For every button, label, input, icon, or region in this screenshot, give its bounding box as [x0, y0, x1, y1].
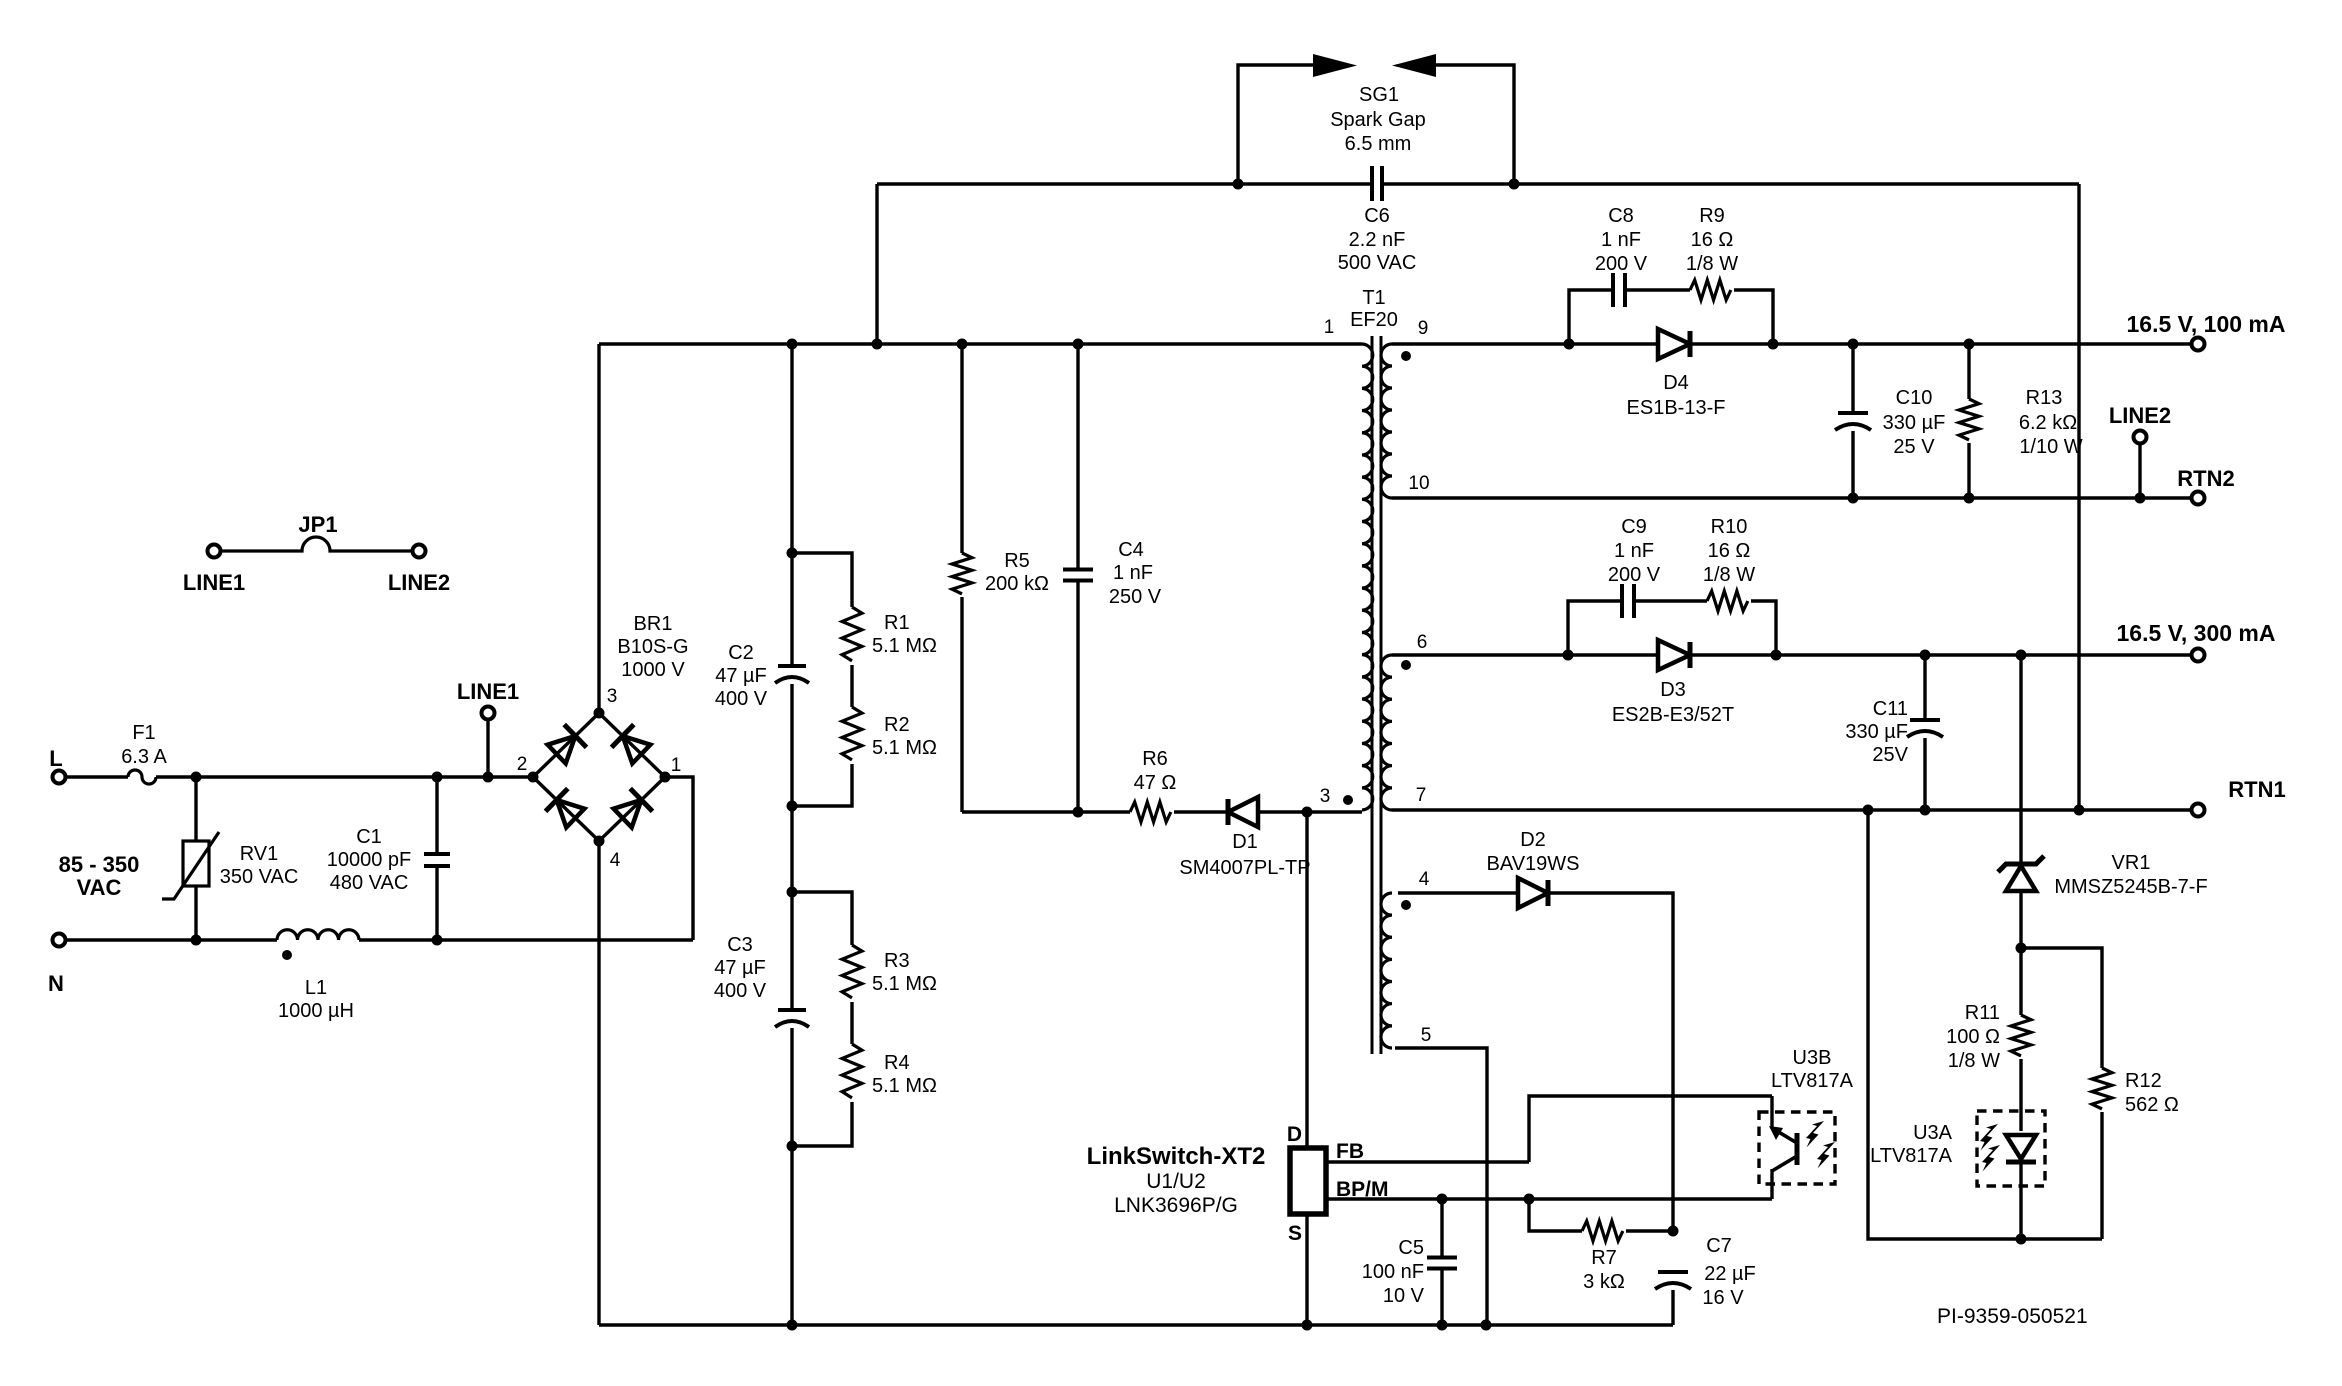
svg-text:BR1: BR1	[634, 613, 673, 635]
svg-text:47 µF: 47 µF	[715, 665, 767, 687]
svg-text:R4: R4	[884, 1052, 910, 1074]
resistor R1	[792, 553, 852, 607]
junction RTN1 return	[1863, 805, 1874, 816]
svg-text:N: N	[48, 971, 64, 996]
svg-text:5.1 MΩ: 5.1 MΩ	[872, 1075, 937, 1097]
junction R13 bottom	[1964, 493, 1975, 504]
junction bridge node 1	[660, 772, 671, 783]
junction R2 branch bottom	[787, 801, 798, 812]
svg-text:350 VAC: 350 VAC	[220, 866, 299, 888]
svg-text:1 nF: 1 nF	[1601, 229, 1641, 251]
svg-text:S: S	[1288, 1222, 1302, 1245]
svg-text:R3: R3	[884, 950, 910, 972]
phase dot pin 9	[1401, 351, 1411, 361]
wire bridge AC right drop	[665, 777, 693, 940]
wire bulk bus upper	[790, 344, 793, 666]
wire R2 bottom	[792, 764, 852, 806]
svg-text:100 nF: 100 nF	[1362, 1261, 1424, 1283]
junction SG1 right	[1509, 179, 1520, 190]
svg-text:3 kΩ: 3 kΩ	[1583, 1271, 1625, 1293]
svg-text:1/10 W: 1/10 W	[2019, 436, 2082, 458]
wire bridge node 4 to return bus	[597, 841, 600, 1325]
wire BP/M	[1327, 1197, 1772, 1200]
phase dot L1	[282, 950, 292, 960]
svg-text:10 V: 10 V	[1383, 1285, 1425, 1307]
svg-text:4: 4	[1419, 869, 1430, 890]
junction C1 top	[432, 772, 443, 783]
svg-text:VAC: VAC	[77, 875, 122, 900]
svg-text:5.1 MΩ: 5.1 MΩ	[872, 737, 937, 759]
wire clamp top bus	[877, 182, 1371, 185]
junction C1 bottom	[432, 935, 443, 946]
junction clamp drop RTN1	[2074, 805, 2085, 816]
junction source return	[1302, 1320, 1313, 1331]
wire L to bridge	[156, 775, 533, 778]
terminal N	[53, 934, 66, 947]
capacitor C11	[1923, 655, 1926, 720]
svg-text:RTN2: RTN2	[2177, 466, 2234, 491]
inductor L1	[277, 930, 359, 940]
svg-text:200 V: 200 V	[1595, 253, 1648, 275]
phase dot pin 4	[1401, 900, 1411, 910]
junction R12 tap	[2016, 943, 2027, 954]
terminal LINE2	[2134, 431, 2147, 444]
optocoupler U3A LED	[1977, 1111, 2045, 1186]
svg-text:R10: R10	[1711, 516, 1748, 538]
svg-text:100 Ω: 100 Ω	[1946, 1026, 2000, 1048]
junction VR1 top	[2016, 650, 2027, 661]
junction R5 top	[957, 339, 968, 350]
resistor R2	[850, 665, 853, 707]
svg-text:330 µF: 330 µF	[1883, 412, 1946, 434]
resistor R9	[1690, 280, 1731, 300]
optocoupler U3B phototransistor	[1759, 1112, 1835, 1184]
wire drop to clamp bus	[875, 184, 878, 344]
junction pin 5 return	[1481, 1320, 1492, 1331]
svg-text:C5: C5	[1398, 1237, 1424, 1259]
resistor R4	[850, 1002, 853, 1044]
resistor R11	[2019, 948, 2022, 1015]
phase dot pin 3	[1343, 795, 1353, 805]
wire source to return bus	[1305, 1214, 1308, 1325]
junction C6 bus drop	[872, 339, 883, 350]
svg-text:10: 10	[1408, 473, 1429, 494]
svg-text:SG1: SG1	[1359, 84, 1399, 106]
junction C4 top	[1073, 339, 1084, 350]
svg-text:16.5 V, 100 mA: 16.5 V, 100 mA	[2127, 311, 2286, 337]
svg-text:LNK3696P/G: LNK3696P/G	[1114, 1194, 1238, 1217]
diode D2	[1518, 878, 1548, 908]
svg-text:C9: C9	[1621, 516, 1647, 538]
wire bulk bus mid	[790, 684, 793, 1010]
svg-text:1: 1	[671, 755, 682, 776]
svg-text:1 nF: 1 nF	[1614, 540, 1654, 562]
svg-text:1/8 W: 1/8 W	[1948, 1050, 2000, 1072]
junction U3A bottom	[2016, 1234, 2027, 1245]
capacitor C10	[1851, 344, 1854, 413]
junction snubber1 right	[1768, 339, 1779, 350]
svg-text:SM4007PL-TP: SM4007PL-TP	[1179, 857, 1310, 879]
svg-text:VR1: VR1	[2112, 852, 2151, 874]
svg-text:3: 3	[607, 686, 618, 707]
wire N	[66, 938, 277, 941]
resistor R13	[1967, 344, 1970, 399]
svg-text:C8: C8	[1608, 205, 1634, 227]
junction C11 bottom	[1920, 805, 1931, 816]
svg-text:5: 5	[1421, 1025, 1432, 1046]
svg-text:9: 9	[1418, 318, 1429, 339]
capacitor C7	[1658, 1270, 1688, 1274]
junction C4 bottom	[1073, 807, 1084, 818]
svg-text:4: 4	[610, 850, 621, 871]
jumper JP1	[208, 545, 221, 558]
resistor R7	[1529, 1199, 1582, 1231]
transformer T1 secondary 9-10	[1381, 344, 1392, 498]
junction R3 branch top	[787, 887, 798, 898]
svg-text:7: 7	[1416, 785, 1427, 806]
capacitor C5	[1440, 1199, 1443, 1257]
svg-text:2.2 nF: 2.2 nF	[1349, 229, 1406, 251]
junction LINE2	[2135, 493, 2146, 504]
wire DC+ bus	[599, 342, 1362, 345]
svg-text:C3: C3	[727, 934, 753, 956]
svg-text:RV1: RV1	[240, 843, 279, 865]
svg-text:U1/U2: U1/U2	[1146, 1170, 1206, 1193]
svg-text:1 nF: 1 nF	[1113, 562, 1153, 584]
svg-text:C10: C10	[1896, 387, 1933, 409]
svg-text:LINE1: LINE1	[457, 679, 519, 704]
junction C5 tap	[1437, 1194, 1448, 1205]
bridge rectifier BR1	[533, 713, 599, 777]
svg-text:22 µF: 22 µF	[1704, 1263, 1756, 1285]
svg-text:1000 V: 1000 V	[621, 659, 685, 681]
junction RV1 bottom	[191, 935, 202, 946]
svg-text:LTV817A: LTV817A	[1771, 1070, 1854, 1092]
svg-text:16 Ω: 16 Ω	[1708, 540, 1751, 562]
svg-text:25 V: 25 V	[1893, 436, 1935, 458]
wire D2 to C7	[1548, 893, 1673, 1231]
junction bridge node 3	[594, 708, 605, 719]
svg-text:6.3 A: 6.3 A	[121, 746, 167, 768]
svg-text:1/8 W: 1/8 W	[1686, 253, 1738, 275]
svg-text:250 V: 250 V	[1109, 586, 1162, 608]
svg-text:C6: C6	[1364, 205, 1390, 227]
svg-text:BAV19WS: BAV19WS	[1487, 853, 1580, 875]
svg-text:1000 µH: 1000 µH	[278, 1000, 354, 1022]
junction snubber1 left	[1564, 339, 1575, 350]
wire pin 6 rail	[1392, 653, 1658, 656]
svg-text:5.1 MΩ: 5.1 MΩ	[872, 973, 937, 995]
capacitor C2	[778, 664, 806, 668]
svg-text:JP1: JP1	[298, 512, 337, 537]
svg-text:16 Ω: 16 Ω	[1691, 229, 1734, 251]
junction bulk bus bottom	[787, 1320, 798, 1331]
junction snubber2 left	[1563, 650, 1574, 661]
svg-text:RTN1: RTN1	[2228, 777, 2285, 802]
svg-text:T1: T1	[1362, 287, 1385, 309]
junction SG1 left	[1233, 179, 1244, 190]
resistor R10	[1707, 591, 1748, 611]
wire bridge node 3 to DC bus	[597, 344, 600, 713]
wire clamp bus right drop	[2077, 184, 2080, 810]
wire drain drop	[1305, 812, 1308, 1146]
resistor R5	[960, 344, 963, 553]
svg-text:PI-9359-050521: PI-9359-050521	[1937, 1305, 2088, 1328]
IC U1/U2 LinkSwitch-XT2	[1290, 1148, 1326, 1214]
wire bulk bus lower	[790, 1028, 793, 1325]
spark gap SG1	[1238, 65, 1313, 184]
junction bridge node 4	[594, 836, 605, 847]
svg-text:3: 3	[1320, 786, 1331, 807]
svg-text:R9: R9	[1699, 205, 1725, 227]
svg-text:D1: D1	[1232, 831, 1258, 853]
svg-text:16 V: 16 V	[1702, 1287, 1744, 1309]
diode D4	[1658, 329, 1690, 359]
junction R7 tap	[1524, 1194, 1535, 1205]
capacitor C4	[1076, 344, 1079, 569]
wire pin 9 rail	[1392, 342, 1658, 345]
zener diode VR1	[2019, 655, 2022, 866]
svg-text:ES2B-E3/52T: ES2B-E3/52T	[1612, 704, 1734, 726]
svg-text:R1: R1	[884, 612, 910, 634]
svg-text:5.1 MΩ: 5.1 MΩ	[872, 635, 937, 657]
capacitor C8	[1569, 290, 1611, 344]
svg-text:U3A: U3A	[1913, 1122, 1953, 1144]
svg-text:C11: C11	[1873, 698, 1908, 720]
svg-text:D2: D2	[1520, 829, 1546, 851]
junction C5 return	[1437, 1320, 1448, 1331]
svg-text:R6: R6	[1142, 748, 1168, 770]
svg-text:LINE1: LINE1	[183, 570, 245, 595]
svg-text:C2: C2	[728, 642, 754, 664]
junction C11 top	[1920, 650, 1931, 661]
svg-text:6.5 mm: 6.5 mm	[1345, 133, 1412, 155]
junction C10 top	[1848, 339, 1859, 350]
svg-text:LTV817A: LTV817A	[1870, 1145, 1953, 1167]
svg-text:6.2 kΩ: 6.2 kΩ	[2019, 412, 2077, 434]
svg-text:EF20: EF20	[1350, 309, 1398, 331]
terminal RTN1	[2192, 804, 2205, 817]
svg-text:ES1B-13-F: ES1B-13-F	[1627, 397, 1726, 419]
svg-text:D: D	[1287, 1123, 1302, 1146]
junction R7/C7 node	[1668, 1226, 1679, 1237]
svg-text:R2: R2	[884, 714, 910, 736]
svg-text:16.5 V, 300 mA: 16.5 V, 300 mA	[2117, 620, 2276, 646]
junction RV1 top	[191, 772, 202, 783]
svg-text:R7: R7	[1591, 1247, 1617, 1269]
junction R4 branch bottom	[787, 1141, 798, 1152]
svg-text:6: 6	[1417, 632, 1428, 653]
svg-text:U3B: U3B	[1793, 1047, 1832, 1069]
wire R6 to D1	[1174, 810, 1228, 813]
wire pin 4	[1398, 891, 1518, 894]
svg-text:47 µF: 47 µF	[714, 957, 766, 979]
varistor RV1	[194, 777, 197, 841]
wire pin 10 rail	[1392, 496, 2190, 499]
resistor R12	[2021, 948, 2102, 1068]
wire L input	[66, 775, 128, 778]
capacitor C3	[778, 1008, 806, 1012]
svg-text:C7: C7	[1706, 1235, 1732, 1257]
junction R1 branch top	[787, 548, 798, 559]
capacitor C6	[1370, 166, 1374, 201]
capacitor C9	[1568, 601, 1620, 655]
svg-text:R11: R11	[1965, 1002, 2000, 1024]
wire N to bridge	[359, 938, 693, 941]
svg-text:400 V: 400 V	[714, 980, 767, 1002]
capacitor C1	[435, 777, 438, 854]
transformer T1 bias winding 4-5	[1381, 893, 1392, 1048]
svg-text:85 - 350: 85 - 350	[59, 852, 140, 877]
svg-text:LinkSwitch-XT2: LinkSwitch-XT2	[1087, 1143, 1266, 1170]
svg-text:C4: C4	[1118, 539, 1144, 561]
junction snubber2 right	[1771, 650, 1782, 661]
terminal 16.5V 100mA	[2192, 338, 2205, 351]
junction C2 bus top	[787, 339, 798, 350]
svg-text:200 kΩ: 200 kΩ	[985, 573, 1049, 595]
svg-text:47 Ω: 47 Ω	[1134, 772, 1177, 794]
fuse F1	[128, 770, 156, 784]
svg-text:R5: R5	[1004, 550, 1030, 572]
wire R5/C4 bottom rail	[962, 810, 1130, 813]
diode D3	[1658, 640, 1690, 670]
svg-text:FB: FB	[1336, 1140, 1364, 1163]
junction LINE1 tap	[483, 772, 494, 783]
wire FB riser to opto emitter	[1529, 1096, 1772, 1162]
svg-text:200 V: 200 V	[1608, 564, 1661, 586]
svg-text:1/8 W: 1/8 W	[1703, 564, 1755, 586]
diode D1	[1228, 797, 1258, 827]
svg-text:L: L	[49, 746, 62, 771]
svg-text:25V: 25V	[1872, 744, 1908, 766]
wire LINE2 stub	[2138, 444, 2141, 498]
svg-text:480 VAC: 480 VAC	[330, 872, 409, 894]
svg-text:R12: R12	[2125, 1070, 2162, 1092]
junction drain node	[1302, 807, 1313, 818]
transformer T1 secondary 6-7	[1381, 655, 1392, 810]
svg-text:R13: R13	[2026, 387, 2063, 409]
junction bridge node 2	[528, 772, 539, 783]
svg-text:1: 1	[1324, 317, 1335, 338]
terminal RTN2	[2192, 492, 2205, 505]
svg-text:D4: D4	[1663, 372, 1689, 394]
transformer T1 primary winding	[1362, 344, 1373, 810]
terminal LINE1	[482, 707, 495, 720]
svg-text:C1: C1	[356, 826, 382, 848]
svg-text:LINE2: LINE2	[388, 570, 450, 595]
terminal 16.5V 300mA	[2192, 649, 2205, 662]
svg-text:500 VAC: 500 VAC	[1338, 252, 1417, 274]
svg-text:2: 2	[517, 754, 528, 775]
phase dot pin 6	[1401, 660, 1411, 670]
wire bottom return bus	[599, 1323, 1673, 1326]
junction R13 top	[1964, 339, 1975, 350]
transformer T1 core	[1371, 336, 1374, 1054]
junction C10 bottom	[1848, 493, 1859, 504]
wire pin 5	[1395, 1048, 1487, 1325]
wire LINE1 stub	[486, 720, 489, 777]
svg-text:Spark Gap: Spark Gap	[1330, 109, 1426, 131]
resistor R3	[792, 892, 852, 945]
svg-text:562 Ω: 562 Ω	[2125, 1094, 2179, 1116]
svg-text:D3: D3	[1660, 679, 1686, 701]
svg-text:10000 pF: 10000 pF	[327, 849, 412, 871]
svg-text:330 µF: 330 µF	[1845, 721, 1908, 743]
wire secondary sense return	[1868, 810, 2102, 1239]
wire pin 7 rail RTN1	[1392, 808, 2190, 811]
svg-text:400 V: 400 V	[715, 688, 768, 710]
svg-text:L1: L1	[305, 977, 327, 999]
svg-text:B10S-G: B10S-G	[617, 636, 688, 658]
wire D1 to pin 3	[1258, 810, 1362, 813]
svg-text:LINE2: LINE2	[2109, 403, 2171, 428]
wire FB	[1327, 1160, 1529, 1163]
svg-text:MMSZ5245B-7-F: MMSZ5245B-7-F	[2054, 876, 2207, 898]
svg-text:F1: F1	[132, 722, 155, 744]
terminal L	[53, 771, 66, 784]
wire R4 bottom	[792, 1102, 852, 1146]
resistor R6	[1130, 802, 1171, 822]
